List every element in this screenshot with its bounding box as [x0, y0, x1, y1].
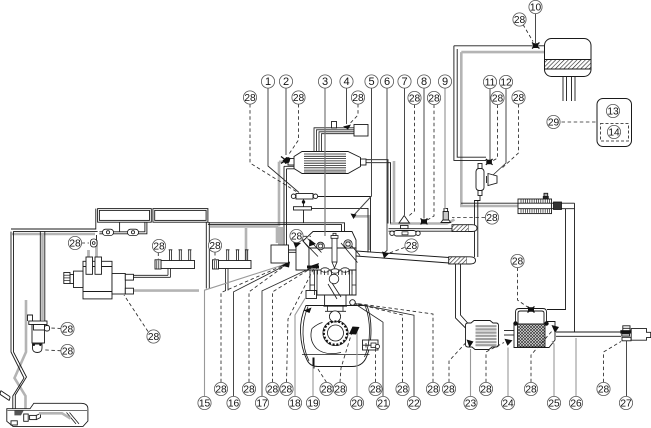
- svg-text:28: 28: [334, 385, 346, 396]
- svg-text:4: 4: [343, 76, 349, 88]
- svg-text:28: 28: [525, 385, 537, 396]
- svg-text:28: 28: [352, 93, 364, 104]
- svg-text:20: 20: [351, 399, 363, 410]
- svg-text:16: 16: [228, 399, 240, 410]
- svg-text:28: 28: [69, 239, 81, 250]
- svg-text:24: 24: [502, 399, 514, 410]
- svg-text:29: 29: [548, 118, 560, 129]
- svg-text:28: 28: [244, 93, 256, 104]
- svg-text:6: 6: [384, 76, 390, 88]
- svg-text:28: 28: [62, 347, 74, 358]
- svg-text:25: 25: [548, 399, 560, 410]
- svg-text:28: 28: [215, 385, 227, 396]
- svg-text:19: 19: [307, 399, 319, 410]
- svg-text:8: 8: [421, 76, 427, 88]
- svg-text:3: 3: [322, 76, 328, 88]
- svg-text:28: 28: [427, 385, 439, 396]
- svg-text:28: 28: [409, 94, 421, 105]
- svg-text:7: 7: [401, 76, 407, 88]
- svg-text:28: 28: [443, 385, 455, 396]
- svg-text:28: 28: [370, 385, 382, 396]
- svg-text:28: 28: [406, 241, 418, 252]
- svg-text:28: 28: [598, 385, 610, 396]
- svg-text:28: 28: [428, 94, 440, 105]
- svg-text:2: 2: [283, 76, 289, 88]
- svg-text:28: 28: [513, 93, 525, 104]
- svg-text:28: 28: [153, 242, 165, 253]
- svg-text:9: 9: [442, 76, 448, 88]
- svg-text:13: 13: [607, 107, 619, 118]
- svg-text:14: 14: [608, 128, 620, 139]
- svg-text:28: 28: [512, 257, 524, 268]
- svg-text:28: 28: [514, 15, 526, 26]
- svg-text:28: 28: [397, 385, 409, 396]
- svg-text:28: 28: [267, 385, 279, 396]
- svg-text:5: 5: [368, 76, 374, 88]
- svg-text:12: 12: [500, 78, 512, 89]
- svg-text:15: 15: [199, 399, 211, 410]
- svg-text:28: 28: [281, 385, 293, 396]
- svg-text:28: 28: [486, 213, 498, 224]
- svg-text:28: 28: [62, 325, 74, 336]
- svg-text:28: 28: [492, 94, 504, 105]
- svg-text:28: 28: [480, 385, 492, 396]
- svg-text:28: 28: [243, 385, 255, 396]
- svg-text:23: 23: [465, 399, 477, 410]
- svg-text:18: 18: [289, 399, 301, 410]
- svg-text:27: 27: [620, 399, 632, 410]
- svg-text:10: 10: [530, 3, 542, 14]
- svg-text:28: 28: [293, 93, 305, 104]
- svg-text:1: 1: [265, 76, 271, 88]
- svg-text:21: 21: [377, 399, 389, 410]
- svg-text:28: 28: [209, 241, 221, 252]
- svg-text:28: 28: [148, 332, 160, 343]
- svg-text:28: 28: [291, 232, 303, 243]
- svg-text:11: 11: [485, 78, 496, 89]
- svg-text:28: 28: [321, 385, 333, 396]
- svg-text:26: 26: [570, 399, 582, 410]
- svg-text:22: 22: [408, 399, 420, 410]
- svg-text:17: 17: [256, 399, 268, 410]
